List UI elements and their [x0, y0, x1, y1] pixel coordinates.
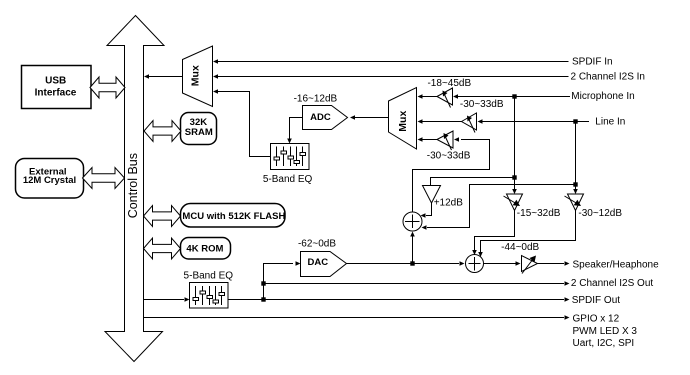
svg-text:12M Crystal: 12M Crystal — [23, 175, 76, 186]
wire GPIO — [144, 315, 570, 320]
wire amp2 to mux2 input2 — [418, 119, 463, 124]
label 2 Channel I2S In — [571, 72, 646, 83]
label 5-Band EQ (top) — [263, 174, 313, 185]
wire summer1 output to amp3 — [413, 137, 490, 212]
svg-text:SPDIF Out: SPDIF Out — [572, 295, 621, 306]
svg-text:MCU with 512K FLASH: MCU with 512K FLASH — [182, 211, 285, 222]
wire ADC to EQ1 — [287, 118, 302, 144]
label Microphone In — [571, 91, 634, 102]
speaker amp -44~0dB — [522, 256, 538, 274]
wire DAC output to summer2 — [347, 261, 465, 266]
USB to bus double arrow — [90, 77, 125, 98]
svg-text:Mux: Mux — [397, 111, 409, 132]
svg-text:4K ROM: 4K ROM — [186, 244, 223, 255]
svg-text:DAC: DAC — [308, 257, 329, 268]
svg-text:Uart, I2C, SPI: Uart, I2C, SPI — [573, 338, 635, 349]
amp +12dB — [423, 186, 441, 204]
mux U1 — [183, 46, 213, 107]
wire -30~12dB amp to summer2 — [478, 211, 575, 258]
wire DAC line to summer1 bottom — [410, 232, 415, 266]
svg-text:GPIO x 12: GPIO x 12 — [573, 313, 620, 324]
label -62~0dB — [298, 238, 336, 249]
amp A2 -30~33dB — [462, 113, 477, 133]
wire EQ1 to mux1 input3 — [213, 89, 271, 156]
label -16~12dB — [294, 93, 338, 104]
wire 2 channel I2S out — [264, 281, 570, 286]
svg-text:-30~33dB: -30~33dB — [427, 151, 471, 162]
DAC — [301, 252, 347, 277]
svg-text:5-Band EQ: 5-Band EQ — [263, 174, 313, 185]
svg-text:USB: USB — [45, 76, 66, 87]
svg-text:2 Channel I2S In: 2 Channel I2S In — [571, 72, 646, 83]
amp A3 -30~33dB — [437, 131, 453, 150]
wire -15~32dB amp to summer2 — [472, 211, 514, 256]
MCU to bus double arrow — [144, 206, 181, 227]
label +12dB — [434, 197, 464, 208]
svg-text:-15~32dB: -15~32dB — [517, 208, 561, 219]
USB interface box — [22, 66, 92, 109]
5-band EQ (top) — [271, 144, 310, 170]
svg-text:-62~0dB: -62~0dB — [298, 238, 336, 249]
32K SRAM box — [181, 113, 217, 145]
label Line In — [595, 116, 625, 127]
amp -15~32dB — [504, 194, 523, 211]
wire DAC input from EQ2 junction — [261, 261, 300, 301]
label -15~32dB — [517, 208, 561, 219]
wire amp3 to mux2 input3 — [418, 137, 438, 142]
wire SPDIF out — [228, 297, 570, 302]
svg-text:Line In: Line In — [595, 116, 625, 127]
control bus arrow — [105, 16, 164, 362]
svg-text:Microphone In: Microphone In — [571, 91, 634, 102]
svg-text:SPDIF In: SPDIF In — [572, 56, 613, 67]
wire SPDIF In — [213, 59, 569, 64]
svg-text:Interface: Interface — [35, 88, 77, 99]
wire +12dB amp to summer1 — [421, 203, 432, 218]
svg-text:ADC: ADC — [310, 112, 331, 123]
wire mux2 output to ADC — [350, 115, 389, 120]
amp -30~12dB — [565, 194, 584, 211]
label PWM LED X 3 — [573, 326, 638, 337]
label SPDIF Out — [572, 295, 621, 306]
label GPIO x 12 — [573, 313, 620, 324]
svg-text:-30~33dB: -30~33dB — [460, 99, 504, 110]
svg-text:PWM LED X 3: PWM LED X 3 — [573, 326, 638, 337]
MCU box — [181, 204, 286, 228]
wire amp1 to mux2 input1 — [418, 94, 438, 99]
wire summer2 to speaker amp — [484, 261, 521, 266]
label SPDIF In — [572, 56, 613, 67]
crystal to bus double arrow — [83, 168, 125, 189]
svg-text:-44~0dB: -44~0dB — [501, 242, 539, 253]
label Uart, I2C, SPI — [573, 338, 635, 349]
svg-text:+12dB: +12dB — [434, 197, 464, 208]
wire line in — [478, 119, 590, 124]
SRAM to bus double arrow — [144, 121, 181, 142]
label Speaker/Heaphone — [573, 259, 660, 270]
label -30~12dB — [578, 208, 622, 219]
ADC — [303, 106, 348, 130]
summer S2 — [466, 255, 484, 273]
svg-text:Mux: Mux — [190, 65, 202, 86]
wire microphone in — [453, 94, 570, 99]
wire line-in branch to summer1 — [422, 122, 578, 230]
label 2 Channel I2S Out — [571, 278, 653, 289]
mux U2 — [389, 88, 417, 150]
svg-text:-18~45dB: -18~45dB — [427, 78, 471, 89]
ROM to bus double arrow — [144, 238, 181, 259]
amp A1 -18~45dB — [437, 88, 453, 108]
wire mic branch to +12dB amp — [431, 97, 517, 195]
wire mux1 output to bus — [144, 74, 183, 79]
wire EQ2 input from bus — [144, 297, 190, 302]
svg-text:SRAM: SRAM — [185, 127, 213, 138]
label -18~45dB — [427, 78, 471, 89]
svg-text:5-Band EQ: 5-Band EQ — [184, 271, 234, 282]
external crystal box X1 — [16, 159, 84, 199]
svg-text:-16~12dB: -16~12dB — [294, 93, 338, 104]
svg-text:Control Bus: Control Bus — [126, 153, 140, 218]
label 5-Band EQ (bottom) — [184, 271, 234, 282]
svg-text:-30~12dB: -30~12dB — [578, 208, 622, 219]
label -30~33dB (upper) — [460, 99, 504, 110]
summer S1 — [403, 212, 422, 231]
label -44~0dB — [501, 242, 539, 253]
wire speaker output — [538, 261, 570, 266]
label -30~33dB (lower) — [427, 151, 471, 162]
svg-text:Speaker/Heaphone: Speaker/Heaphone — [573, 259, 660, 270]
4K ROM box — [181, 238, 231, 260]
wire 2 Channel I2S In — [213, 74, 569, 79]
5-band EQ (bottom) — [190, 283, 229, 309]
svg-text:2 Channel I2S Out: 2 Channel I2S Out — [571, 278, 653, 289]
